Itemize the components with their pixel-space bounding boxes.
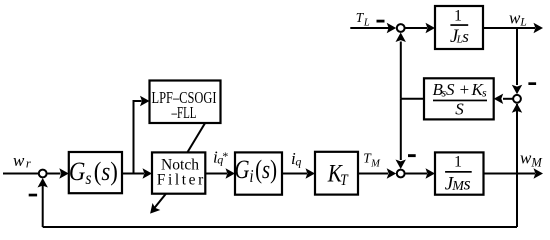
summing junction S4 — [513, 95, 521, 103]
wire T_L input — [350, 27, 388, 29]
block Gi(s) — [235, 152, 282, 194]
block 1/JMs — [435, 152, 484, 194]
summing junction S3 — [397, 24, 405, 32]
wire feedback wM up to S4 — [516, 104, 518, 227]
wire Bs output to vertical — [401, 98, 424, 100]
wire KT to S2 — [358, 173, 388, 175]
block (BsS+Ks)/S — [424, 78, 494, 119]
wire Notch to Gi — [205, 173, 227, 175]
wire wL branch down to S4 — [516, 28, 518, 85]
wire feedback up into S1 — [42, 183, 44, 227]
svg-text:1: 1 — [454, 8, 462, 25]
svg-text:–FLL: –FLL — [171, 103, 197, 122]
summing junction S2 — [397, 170, 405, 178]
wire JM output wM — [484, 173, 536, 175]
block KT — [315, 152, 358, 195]
svg-text:BsS+Ks: BsS+Ks — [433, 80, 488, 99]
wire vertical down to S2 — [400, 99, 402, 160]
svg-text:1: 1 — [454, 153, 462, 170]
wire vertical up to S3 — [400, 42, 402, 99]
adaptive arrow LPF through Notch — [187, 123, 205, 153]
wire feedback bottom — [43, 226, 517, 228]
minus sign at S1 — [29, 194, 37, 197]
minus sign at S2 — [408, 154, 416, 157]
wire JL output wL — [483, 27, 535, 29]
wire S1 to Gs — [47, 173, 60, 175]
wire S2 to JM — [405, 173, 427, 175]
svg-text:S: S — [455, 100, 464, 119]
minus sign at TL — [377, 20, 385, 23]
wire Gi to KT — [282, 173, 307, 175]
block LPF-CSOGI-FLL — [150, 81, 221, 124]
svg-text:Gs(s): Gs(s) — [69, 158, 118, 189]
block 1/JLs — [435, 6, 483, 49]
wire S4 to Bs block — [503, 98, 513, 100]
summing junction S1 — [39, 170, 47, 178]
svg-text:Gi(s): Gi(s) — [235, 156, 278, 187]
wire S3 to JL — [405, 27, 427, 29]
block Notch Filter — [152, 152, 205, 193]
minus sign at S4 — [528, 82, 536, 85]
block Gs(s) — [69, 152, 122, 193]
wire branch up to LPF — [134, 101, 142, 174]
wire Gs to Notch — [122, 173, 144, 175]
wire w_r input — [3, 173, 39, 175]
